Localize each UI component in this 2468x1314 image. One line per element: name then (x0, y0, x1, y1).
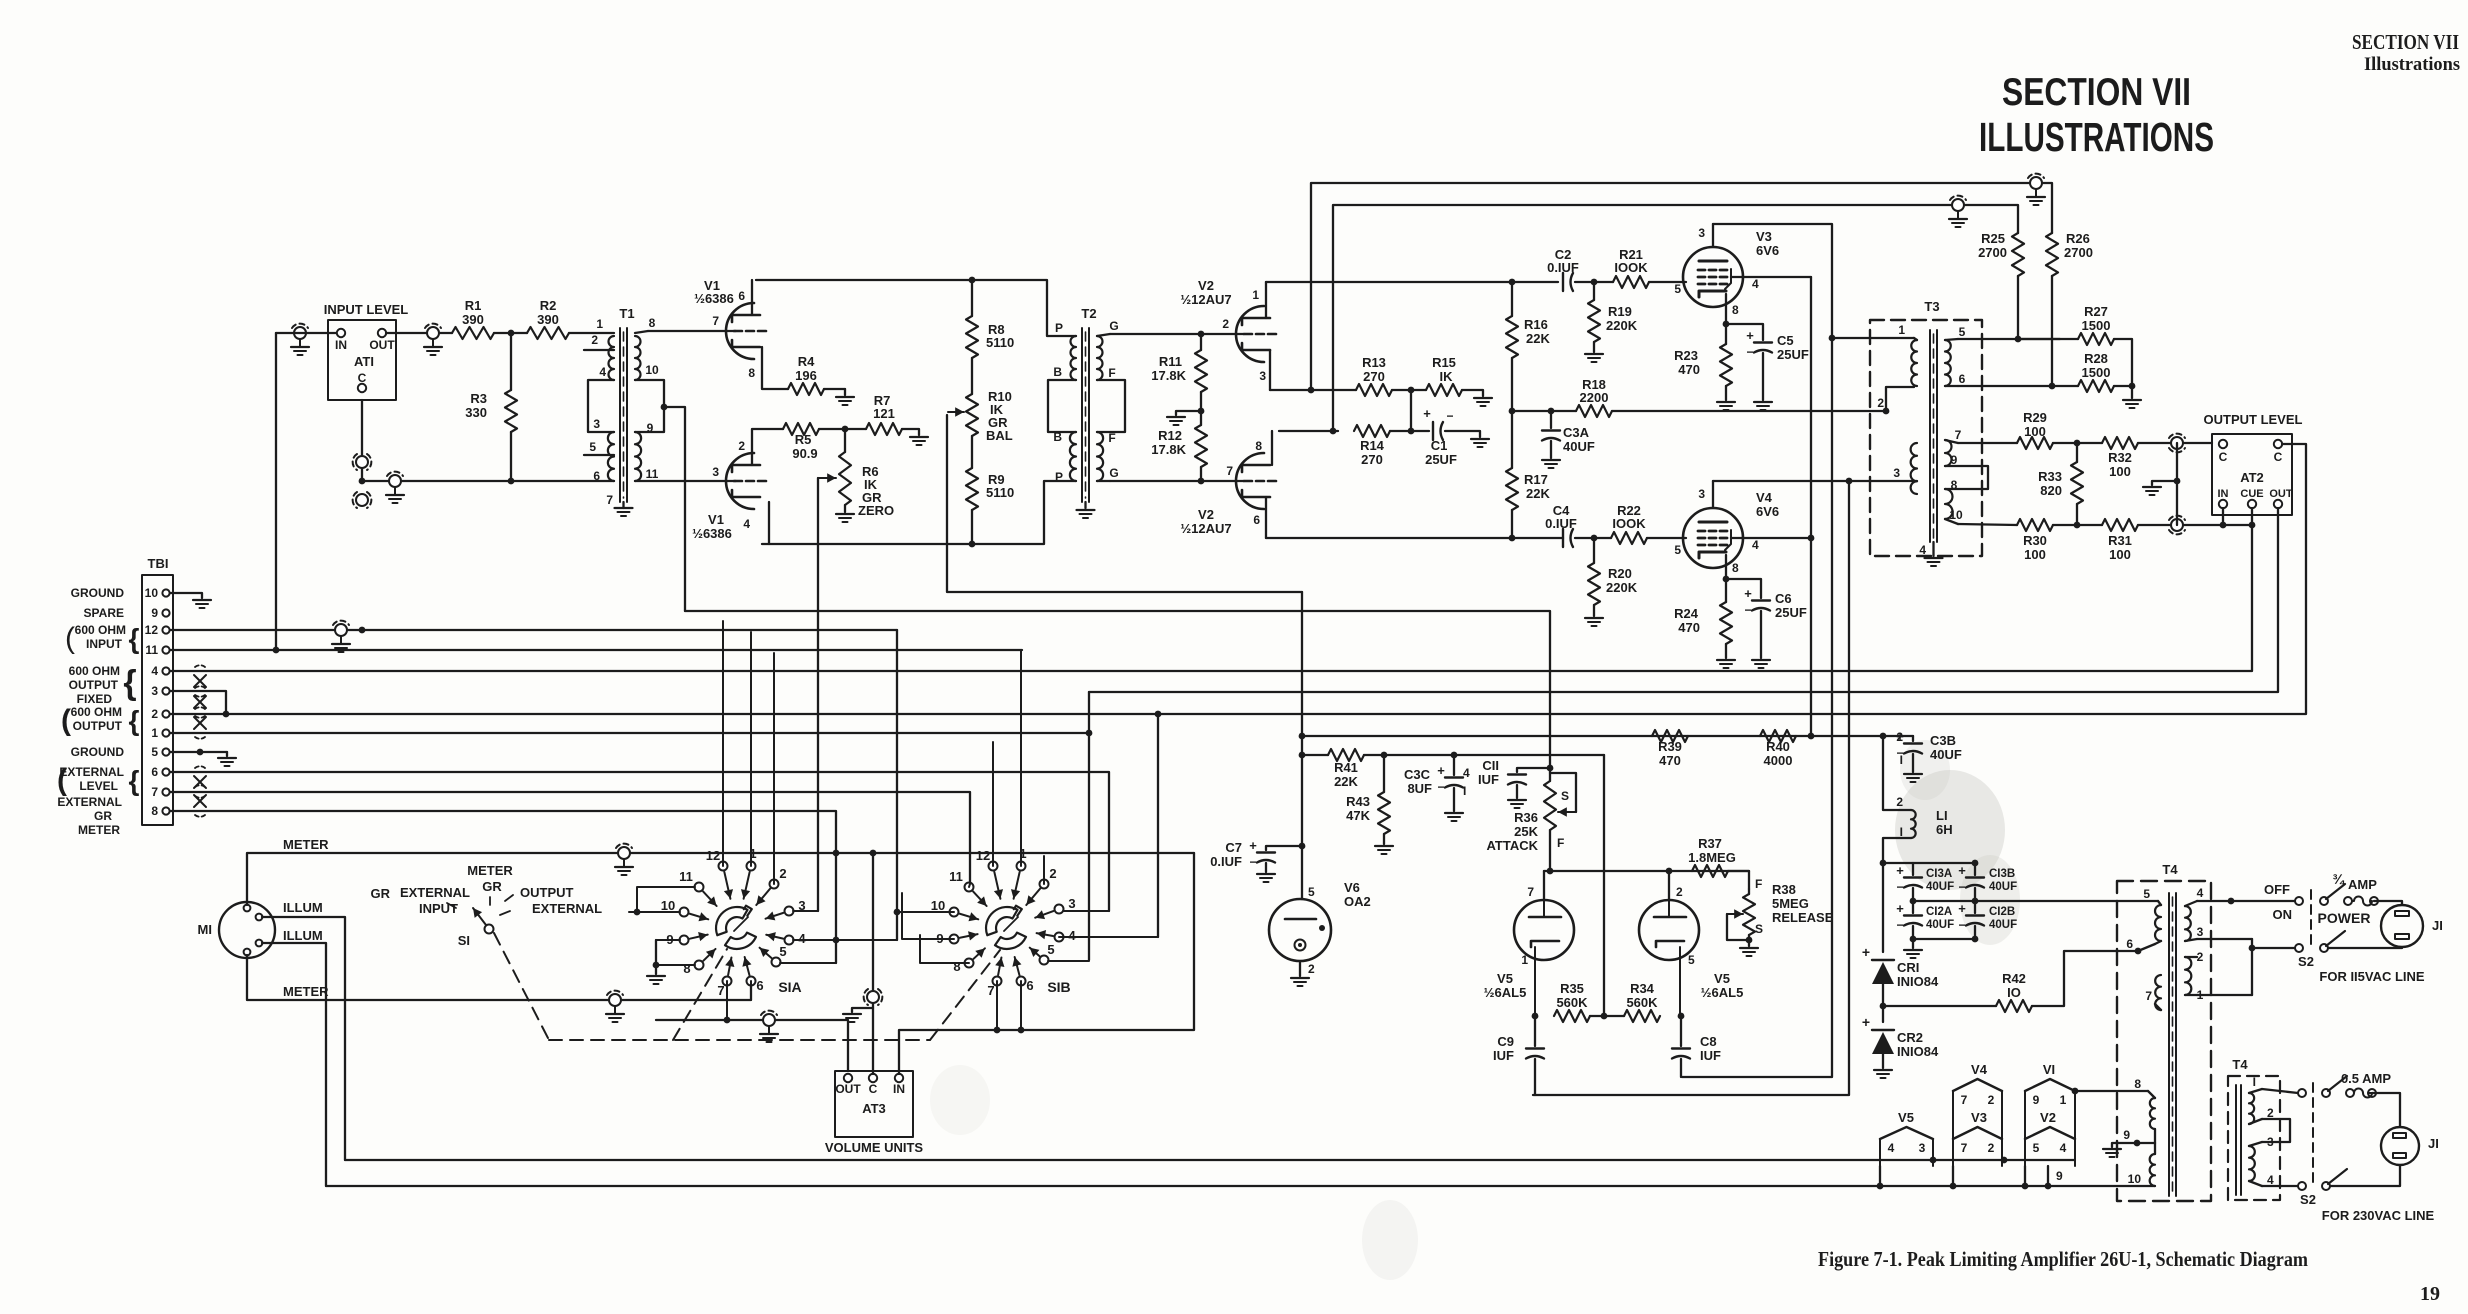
S1A contact 8 (656, 949, 716, 976)
ground C3B (1904, 774, 1922, 782)
svg-text:METER: METER (283, 837, 329, 852)
svg-text:11: 11 (646, 467, 659, 481)
svg-text:I: I (1463, 784, 1466, 798)
node C2/R19 (1591, 279, 1598, 286)
svg-text:4: 4 (1752, 538, 1759, 552)
svg-text:CUE: CUE (2240, 488, 2263, 500)
svg-text:9: 9 (1951, 453, 1958, 467)
svg-text:7: 7 (606, 493, 613, 507)
svg-text:INPUT: INPUT (86, 637, 123, 651)
svg-text:22K: 22K (1334, 774, 1358, 789)
node R14/C1 (1408, 428, 1415, 435)
resistor R42 10 (1883, 951, 2138, 1012)
T4 pin 8 (2076, 1077, 2155, 1098)
svg-text:2: 2 (1049, 866, 1056, 881)
T1 pin 6 (593, 469, 600, 483)
node bus2 V2 left (2022, 1166, 2029, 1189)
wire row TB-8 (170, 811, 836, 963)
node R36 top (1547, 765, 1554, 772)
T1 pin 11 (646, 467, 659, 481)
svg-text:1: 1 (2060, 1093, 2067, 1107)
feedback wire 1 (1311, 183, 2052, 390)
V2 lower pin 8 (1255, 439, 1262, 453)
TB1 terminal 1 (151, 726, 169, 740)
svg-text:40UF: 40UF (1989, 881, 2017, 893)
T4-230 pin 2 (2249, 1106, 2274, 1124)
svg-text:IN: IN (335, 338, 347, 352)
svg-text:AMP: AMP (2348, 877, 2377, 892)
svg-text:G: G (1109, 466, 1118, 480)
label GROUND (TB1-10) (71, 586, 125, 600)
V1 upper pin 8 (748, 366, 755, 380)
tube V1 upper envelope (726, 303, 754, 359)
wire V3 plate to T3 pin1 (1713, 224, 1832, 338)
svg-text:OUTPUT LEVEL: OUTPUT LEVEL (2204, 412, 2303, 427)
label V6 (1344, 880, 1371, 909)
T1 pin 2 stub (584, 333, 614, 350)
svg-text:7: 7 (1961, 1093, 1968, 1107)
T3 pin 4 centertap (1919, 542, 1942, 566)
svg-text:196: 196 (795, 368, 817, 383)
svg-text:220K: 220K (1606, 318, 1638, 333)
svg-text:5: 5 (1959, 325, 1966, 339)
svg-text:1: 1 (596, 317, 603, 331)
T4 primary upper winding (2155, 905, 2161, 941)
node V3 cathode (1723, 321, 1730, 328)
node S1A-7 row tie (724, 1017, 731, 1024)
V5 left pin 1 (1521, 953, 1528, 967)
label POWER (2318, 910, 2371, 926)
label AT2 (2240, 470, 2264, 485)
svg-text:R5: R5 (795, 432, 812, 447)
node heater V1 pin1 (2072, 1088, 2079, 1095)
svg-text:9: 9 (2033, 1093, 2040, 1107)
choke L1 6H (1883, 736, 1953, 863)
AT3 terminal IN (893, 1074, 905, 1096)
resistor R40 4000 (1760, 730, 1796, 768)
svg-text:R1: R1 (465, 298, 482, 313)
svg-text:2: 2 (591, 333, 598, 347)
svg-text:10: 10 (661, 898, 675, 913)
svg-text:R2: R2 (540, 298, 557, 313)
connector J1 115V (2381, 905, 2443, 947)
svg-text:R3: R3 (470, 391, 487, 406)
resistor R11 (1151, 334, 1207, 425)
svg-text:6V6: 6V6 (1756, 243, 1779, 258)
tube V5 left envelope (1514, 900, 1574, 960)
svg-text:OFF: OFF (2264, 882, 2290, 897)
wire shield tie (2143, 443, 2177, 525)
wire row TB-1 supply (170, 732, 1089, 734)
svg-text:EXTERNAL: EXTERNAL (532, 901, 602, 916)
V2 lower plate lead (1271, 431, 1273, 465)
svg-text:8: 8 (748, 366, 755, 380)
node T3 pin2 (1883, 408, 1890, 415)
node R29/R32/R33 (2074, 440, 2081, 447)
wire V1 cathode row (762, 481, 1076, 544)
V1 lower pin 3 (712, 465, 719, 479)
TB1 terminal 5 (151, 745, 169, 759)
wire gr bus row (685, 611, 1550, 770)
svg-text:C: C (2219, 450, 2228, 464)
svg-text:IN: IN (893, 1082, 905, 1096)
svg-text:JI: JI (2428, 1136, 2439, 1151)
svg-text:4: 4 (2060, 1141, 2067, 1155)
svg-text:R17: R17 (1524, 472, 1548, 487)
svg-text:R25: R25 (1981, 231, 2005, 246)
wire R5-R7 (819, 428, 866, 430)
AT2 terminal C left (2219, 440, 2228, 464)
resistor R34 560K (1624, 981, 1660, 1022)
tube V1 upper elements (732, 315, 766, 347)
svg-text:C: C (358, 371, 367, 385)
svg-text:POWER: POWER (2318, 910, 2371, 926)
T3 pin 10 stub (1945, 508, 2017, 525)
pot R36 attack (1544, 768, 1556, 871)
svg-text:5: 5 (1674, 282, 1681, 296)
svg-text:IK: IK (1440, 369, 1454, 384)
svg-text:10: 10 (931, 898, 945, 913)
svg-text:100: 100 (2109, 464, 2131, 479)
svg-text:−: − (1958, 918, 1965, 932)
T4 heater winding lower (2150, 1154, 2155, 1186)
wire T1 loop to gr bus (664, 407, 685, 611)
svg-text:P: P (1055, 470, 1063, 484)
svg-text:S: S (1561, 789, 1569, 803)
svg-text:5: 5 (779, 944, 786, 959)
wire R15 to ground (1462, 390, 1492, 406)
wire R41 row drop to R34/R35 (1603, 755, 1605, 1016)
twisted pair marker 2/1 (194, 707, 206, 739)
svg-text:FIXED: FIXED (77, 692, 113, 706)
node feedback2 tap (1330, 428, 1337, 435)
wire R28 to ground (2114, 386, 2141, 408)
label AT1 (354, 354, 374, 369)
svg-text:I: I (2253, 1075, 2256, 1089)
T4 core (2169, 893, 2176, 1196)
tube V1 lower envelope (726, 453, 754, 509)
wire C4-R22 (1575, 537, 1611, 539)
fuse 0.5 AMP (2346, 1089, 2376, 1098)
TB1 terminal 3 (151, 684, 169, 698)
svg-text:1500: 1500 (2082, 365, 2111, 380)
label V1 upper (694, 278, 734, 306)
resistor R32 (2102, 437, 2138, 479)
node C row (359, 478, 366, 485)
svg-text:560K: 560K (1556, 995, 1588, 1010)
node plate row / R8 (969, 277, 976, 284)
node C12A bottom (1910, 936, 1917, 943)
wire R13 junction drop (1410, 390, 1412, 431)
node R18/C3A (1548, 408, 1555, 415)
label V3 (1756, 229, 1779, 258)
T1 pin 7 centertap ground (606, 493, 632, 516)
node TB-1 end (1086, 730, 1093, 737)
svg-text:7: 7 (1226, 464, 1233, 478)
resistor R20 (1588, 538, 1638, 616)
ground C6 (1752, 660, 1770, 668)
svg-text:2: 2 (1896, 730, 1903, 744)
capacitor C3C 8UF (1404, 755, 1470, 811)
switch S2 upper pole (2295, 884, 2345, 905)
svg-text:25UF: 25UF (1425, 452, 1457, 467)
node TB-3 tie (223, 711, 230, 718)
capacitor C12B 40UF (1958, 901, 2017, 939)
node V4 plate row (1846, 478, 1853, 485)
node cathode row / R9 (969, 541, 976, 548)
wire V2 plate row to C2 (1266, 281, 1558, 283)
S1A contact 3 (766, 898, 818, 920)
T3 pin1 winding stub (1914, 338, 1917, 340)
svg-text:1: 1 (151, 726, 158, 740)
wire AT2 CUE to TB 600ohm out (170, 508, 2252, 671)
svg-text:40UF: 40UF (1926, 881, 1954, 893)
capacitor C5 (1746, 328, 1809, 400)
svg-text:OUTPUT: OUTPUT (69, 678, 119, 692)
svg-text:7: 7 (1527, 885, 1534, 899)
S1B contact 9 (902, 893, 978, 946)
feedback wire 2 (1333, 205, 2018, 431)
wire row TB-12 (170, 629, 897, 631)
shielded connector on C row (386, 472, 404, 503)
svg-text:6: 6 (1959, 372, 1966, 386)
V2 lower pin 7 (1226, 464, 1233, 478)
transformer T2 label (1081, 306, 1096, 321)
label OFF (2264, 882, 2290, 897)
label GROUND (TB1-5) (71, 745, 125, 759)
node C7 tie (1299, 843, 1306, 850)
T1 core (620, 328, 627, 502)
node S1B-6 tie (1018, 1027, 1025, 1034)
resistor R13 (1356, 355, 1392, 396)
wire TB12 drop to S1B-10 (896, 630, 898, 940)
ground R43 (1375, 846, 1393, 854)
resistor R16 (1506, 282, 1550, 411)
svg-text:R32: R32 (2108, 450, 2132, 465)
T3 pin 2 (1877, 396, 1884, 410)
svg-text:12: 12 (145, 623, 159, 637)
T3 pin 5 stub (1945, 325, 2060, 340)
svg-text:330: 330 (465, 405, 487, 420)
R10 wiper arrow (948, 407, 964, 416)
resistor R12 (1151, 425, 1207, 481)
resistor R21 (1613, 247, 1649, 288)
heater V2 (2025, 1110, 2075, 1166)
label METER bottom (283, 984, 329, 999)
T3 pin 6 stub (1945, 372, 2078, 386)
T4-230 jumper 2-3 (2262, 1119, 2290, 1142)
wire fuse to J1 (2374, 901, 2402, 905)
svg-text:R42: R42 (2002, 971, 2026, 986)
TB1-5 ground (170, 749, 236, 766)
node R27/R28 join (2129, 383, 2136, 390)
wire AT3 IN riser (899, 853, 1194, 1074)
svg-text:P: P (1055, 321, 1063, 335)
svg-text:VOLUME UNITS: VOLUME UNITS (825, 1140, 924, 1155)
shield marker on C wire upper (353, 454, 372, 470)
heater V3 (1953, 1110, 2002, 1166)
svg-text:−: − (1896, 918, 1903, 932)
S1B contact 11 (949, 869, 986, 906)
T2 centertap ground (1077, 502, 1095, 518)
S1A contact 7 (717, 957, 734, 1020)
node R11/R12 mid (1198, 408, 1205, 415)
wire T4 sec join (2249, 939, 2299, 995)
scan smudge center bottom (930, 1065, 1418, 1280)
tube V3 6V6 (1683, 247, 1743, 307)
svg-text:F: F (1755, 877, 1762, 891)
T4 secondary winding upper (2185, 906, 2191, 941)
shielded connector on feedback 1 (2027, 174, 2045, 205)
wire fuse230 to J1 (2372, 1093, 2400, 1127)
wire R13-R15 (1392, 389, 1426, 391)
svg-text:5: 5 (1688, 953, 1695, 967)
svg-text:{: { (129, 765, 140, 796)
T2 pin G bottom stub (1097, 466, 1244, 481)
ground C11 (1508, 800, 1526, 808)
svg-text:FOR II5VAC LINE: FOR II5VAC LINE (2319, 969, 2425, 984)
wire R1-R2 (494, 332, 527, 334)
svg-text:2: 2 (1308, 962, 1315, 976)
wire AT2 C right to TB (170, 444, 2306, 714)
node T4 pin4 row (2228, 898, 2235, 905)
svg-text:V2: V2 (1198, 507, 1214, 522)
svg-text:R43: R43 (1346, 794, 1370, 809)
capacitor C3B 40UF (1883, 729, 1962, 772)
V4 pin 8 lead (1726, 555, 1739, 579)
AT1 terminal C (358, 371, 367, 392)
wire AT3 C riser (872, 853, 874, 1074)
label TB1 (148, 556, 169, 571)
wire V4 plate to T3 pin3 (1713, 480, 1914, 482)
wire input left drop (275, 333, 277, 650)
svg-text:C: C (2274, 450, 2283, 464)
AT3 terminal OUT (835, 1074, 861, 1096)
svg-text:ON: ON (2273, 907, 2293, 922)
svg-text:R29: R29 (2023, 410, 2047, 425)
svg-text:T4: T4 (2232, 1057, 2248, 1072)
node R3 bottom (508, 478, 515, 485)
wire row TB-6 (170, 772, 1109, 911)
TB1 terminal 8 (151, 804, 169, 818)
wire filter bottom row (1913, 938, 1975, 940)
TB1 terminal 9 (151, 606, 169, 620)
node shield tie (2174, 478, 2181, 485)
svg-text:OUTPUT: OUTPUT (73, 719, 123, 733)
svg-text:IOOK: IOOK (1614, 260, 1648, 275)
svg-text:(: ( (57, 764, 67, 797)
svg-text:11: 11 (145, 643, 158, 657)
svg-text:3: 3 (712, 465, 719, 479)
svg-text:T3: T3 (1924, 299, 1939, 314)
wire R35-R34 (1590, 1015, 1624, 1017)
label V5 left (1484, 971, 1527, 1000)
svg-text:V5: V5 (1497, 971, 1513, 986)
wire ILLUM 1 (262, 917, 345, 1160)
wire meter bottom (247, 955, 751, 1000)
node feedback1 tap (1308, 387, 1315, 394)
TB1 terminal 7 (151, 785, 169, 799)
label S1A (778, 979, 801, 995)
shielded connector on feedback 2 (1949, 196, 1967, 227)
T4 secondary winding lower (2185, 957, 2191, 995)
svg-text:ZERO: ZERO (858, 503, 894, 518)
shielded connector AT3 out row (760, 1011, 778, 1042)
V5 left pin 7 (1527, 885, 1534, 899)
svg-text:5110: 5110 (986, 335, 1014, 350)
heater bus lower (326, 1185, 2155, 1187)
svg-text:C9: C9 (1497, 1034, 1514, 1049)
svg-text:10: 10 (645, 363, 659, 377)
svg-text:R26: R26 (2066, 231, 2090, 246)
transformer T4-230 label (2232, 1057, 2248, 1072)
svg-text:−: − (1744, 603, 1751, 617)
V4 pin 3 lead (1698, 481, 1713, 508)
label 3/4 AMP (2332, 871, 2377, 892)
ground C5 (1754, 402, 1772, 410)
V5 right pin 2 (1676, 885, 1683, 899)
svg-text:V2: V2 (2040, 1110, 2056, 1125)
T4 pin 7 (2145, 989, 2161, 1010)
resistor R26 (2046, 233, 2058, 386)
svg-text:INIO84: INIO84 (1897, 1044, 1939, 1059)
T4-230 winding lower (2249, 1146, 2255, 1181)
AT2 terminal C right (2274, 440, 2283, 464)
S1B contact 4 (1037, 928, 1158, 943)
diode CR2 (1862, 1006, 1939, 1068)
twisted pair marker 4/3 (194, 665, 206, 697)
svg-text:IOOK: IOOK (1612, 516, 1646, 531)
wire C9 return (1534, 1059, 1536, 1095)
ground R19 (1585, 354, 1603, 362)
svg-text:GROUND: GROUND (71, 745, 125, 759)
svg-text:ATTACK: ATTACK (1486, 838, 1538, 853)
wire into AT1 IN (276, 332, 337, 334)
svg-text:25K: 25K (1514, 824, 1538, 839)
label S2 (230) (2300, 1192, 2316, 1207)
resistor R35 560K (1554, 981, 1590, 1022)
svg-text:8: 8 (683, 961, 690, 976)
heater V5 (1880, 1110, 1933, 1166)
svg-text:R39: R39 (1658, 739, 1682, 754)
wire V2 lower cathode row (1266, 537, 1563, 539)
node R41/R43 (1381, 752, 1388, 759)
T4 pin 2 stub (2185, 950, 2204, 964)
wire filter top row (1883, 862, 1975, 864)
svg-text:R37: R37 (1698, 836, 1722, 851)
S1A contact 9 (656, 932, 708, 947)
ground filter bottom (1904, 939, 1922, 958)
svg-text:EXTERNAL: EXTERNAL (59, 765, 124, 779)
svg-text:+: + (1862, 1014, 1870, 1030)
svg-text:C7: C7 (1225, 840, 1242, 855)
wire T1 pin8 to V1 grid (648, 330, 736, 332)
node AT2 IN tie (2220, 522, 2227, 529)
svg-text:4: 4 (1752, 277, 1759, 291)
AT3 terminal C (869, 1074, 878, 1096)
T1 pin 5 stub (584, 440, 614, 455)
svg-text:R12: R12 (1158, 428, 1182, 443)
twisted pair marker 7/8 (194, 785, 206, 817)
svg-text:FOR 230VAC LINE: FOR 230VAC LINE (2322, 1208, 2435, 1223)
svg-text:OUT: OUT (835, 1082, 861, 1096)
node C4/R20 (1591, 535, 1598, 542)
V1 upper plate lead (751, 280, 753, 315)
node T4 pin6 (2135, 944, 2155, 954)
svg-text:METER: METER (467, 863, 513, 878)
svg-text:T1: T1 (619, 306, 634, 321)
label V5 right (1701, 971, 1744, 1000)
